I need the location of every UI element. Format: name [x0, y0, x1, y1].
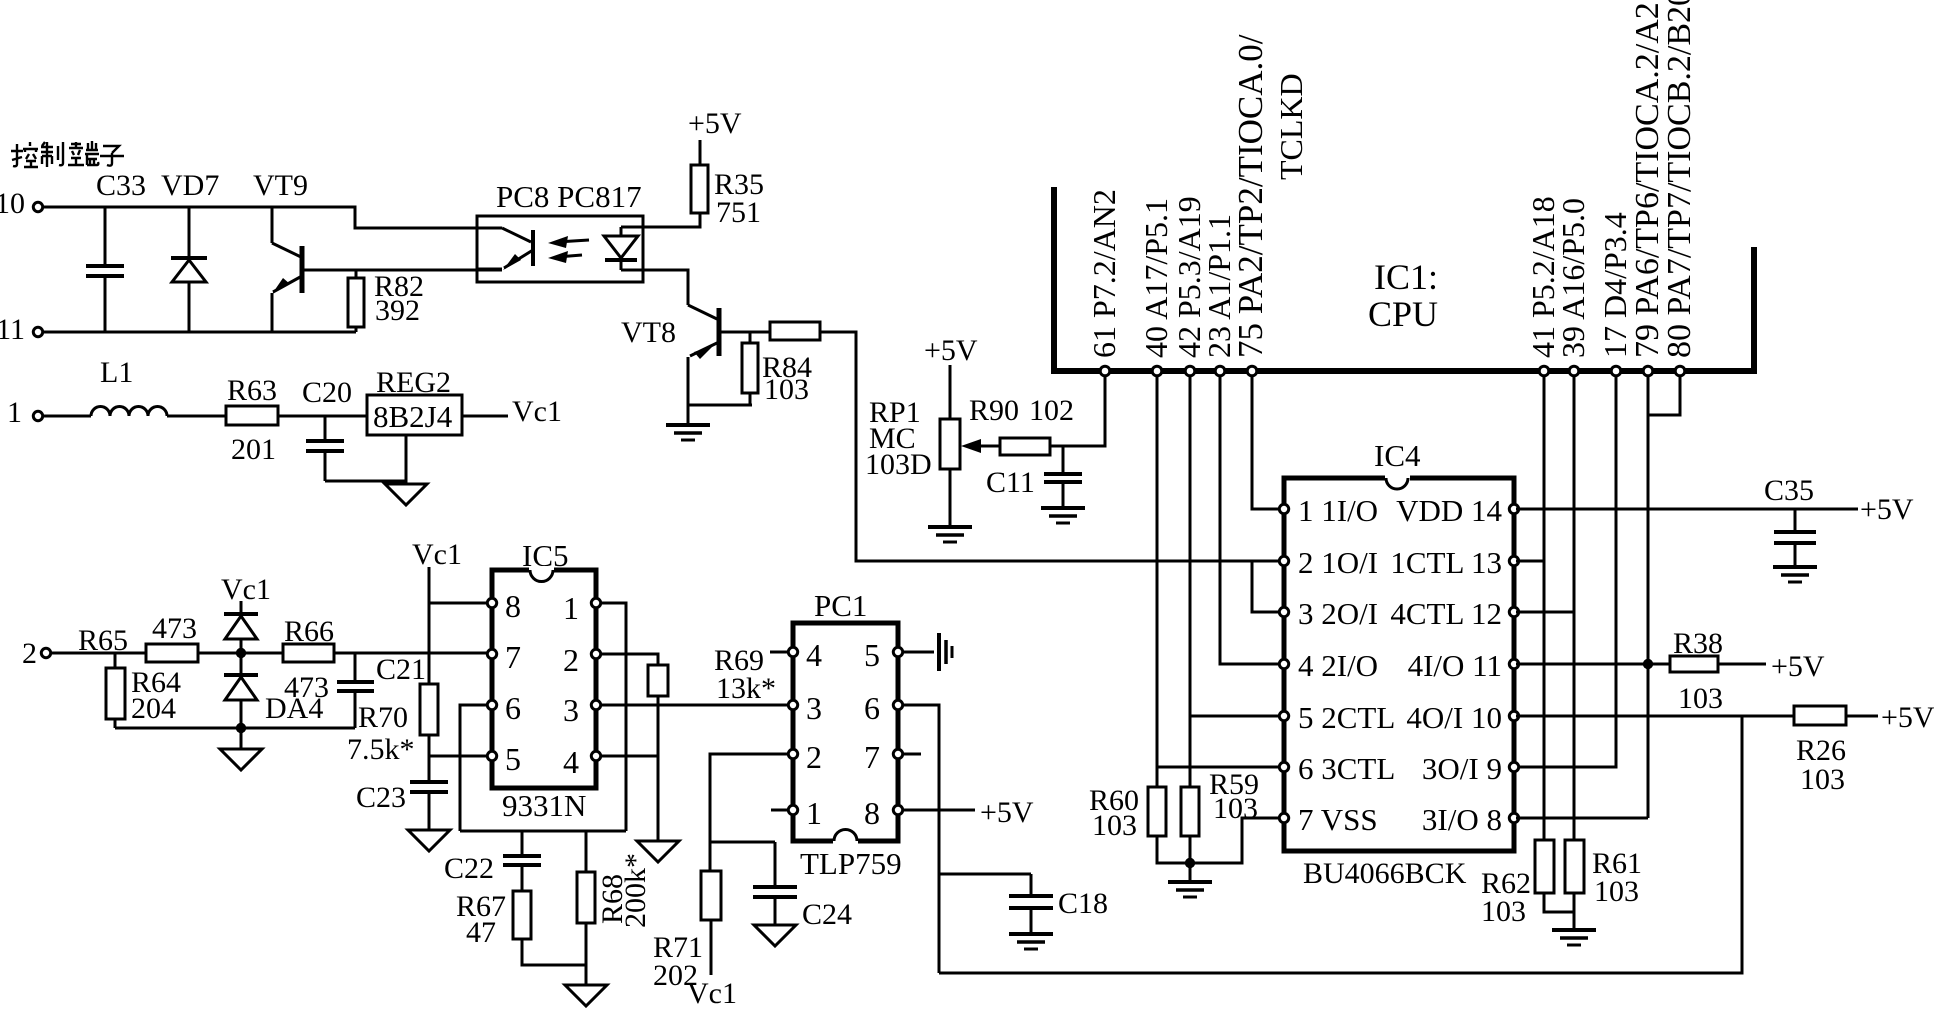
svg-text:473: 473 [152, 612, 197, 645]
svg-text:103: 103 [764, 373, 809, 406]
svg-text:Vc1: Vc1 [221, 573, 271, 606]
svg-text:5: 5 [864, 637, 880, 673]
wire CPU pin 80 jog [1648, 377, 1680, 415]
svg-text:L1: L1 [100, 356, 133, 389]
svg-text:6 3CTL: 6 3CTL [1298, 751, 1395, 786]
IC5 pin 8 wire [429, 598, 497, 607]
resistor (VT8 collector series) [770, 322, 820, 340]
svg-text:2: 2 [563, 642, 579, 678]
svg-text:1: 1 [563, 590, 579, 626]
wire R65 to R66 [198, 652, 283, 655]
IC4 pin 12 wire [1509, 607, 1574, 616]
ground (R69) [637, 841, 679, 862]
resistor R26 [1794, 706, 1878, 725]
PC1 notch (bottom) [833, 837, 858, 845]
svg-text:47: 47 [466, 916, 496, 949]
resistor R64 [106, 653, 125, 728]
svg-text:+5V: +5V [1881, 701, 1934, 734]
svg-text:103: 103 [1678, 682, 1723, 715]
svg-text:3: 3 [563, 692, 579, 728]
junction DA4 bottom [236, 723, 246, 733]
wire Vc1 column [428, 567, 431, 684]
wire branch IC4 pin2 to pin 3 [1252, 561, 1282, 612]
svg-text:103D: 103D [865, 448, 932, 481]
svg-text:C23: C23 [356, 781, 406, 814]
svg-text:C20: C20 [302, 376, 352, 409]
svg-text:TLP759: TLP759 [800, 846, 902, 881]
wire terminal 10 rail [44, 207, 503, 228]
ground (RP1) [928, 527, 972, 542]
svg-text:473: 473 [284, 671, 329, 704]
CPU IC1 outline [1051, 187, 1757, 371]
capacitor C11 [1044, 446, 1082, 508]
svg-text:1CTL 13: 1CTL 13 [1390, 545, 1502, 580]
svg-text:80 PA7/TP7/TIOCB.2/B20: 80 PA7/TP7/TIOCB.2/B20 [1661, 0, 1698, 358]
IC5 pin 4 wire [591, 751, 658, 760]
wire CPU pin 23 to IC4 pin 4 [1220, 377, 1282, 664]
wire PC8 to R35 [643, 213, 700, 227]
resistor R59 [1181, 787, 1199, 882]
wire VDD to +5V [1516, 508, 1858, 511]
junction DA4 top [236, 648, 246, 658]
svg-text:1: 1 [7, 396, 22, 429]
PC1 pin 1 stub [771, 805, 798, 814]
svg-text:VT8: VT8 [621, 316, 676, 349]
resistor R61 [1565, 840, 1584, 930]
svg-text:61 P7.2/AN2: 61 P7.2/AN2 [1086, 189, 1122, 358]
svg-text:VDD 14: VDD 14 [1396, 493, 1502, 528]
wire bottom rail (R64/DA4/C21) [115, 727, 355, 730]
svg-text:102: 102 [1029, 394, 1074, 427]
svg-text:3I/O 8: 3I/O 8 [1422, 802, 1502, 837]
resistor R38 [1670, 656, 1766, 672]
capacitor C23 [410, 782, 448, 830]
resistor R90 [1000, 438, 1050, 455]
IC4 pin 11 wire [1509, 659, 1670, 668]
regulator REG2 box [367, 395, 462, 435]
IC5 pin 2 wire [591, 649, 658, 665]
svg-text:103: 103 [1481, 895, 1526, 928]
svg-text:4CTL 12: 4CTL 12 [1390, 596, 1502, 631]
resistor R63 [226, 406, 278, 425]
diode VD7 [171, 207, 207, 332]
IC4 pin 1 wire [1279, 504, 1288, 513]
transistor VT8 [688, 305, 719, 425]
IC4 pin 10 wire [1509, 711, 1794, 720]
terminal 1 circle [33, 411, 42, 420]
IC4 pin 3 circle [1279, 607, 1288, 616]
IC4 pin 14 circle [1509, 504, 1518, 513]
PC1 pin 8 wire [893, 805, 975, 814]
svg-text:6: 6 [505, 690, 521, 726]
svg-text:1: 1 [806, 795, 822, 831]
PC1 box [793, 623, 898, 841]
capacitor C35 [1774, 509, 1816, 567]
IC4 pin 5 wire [1190, 711, 1289, 720]
resistor R68 [577, 831, 595, 985]
svg-text:2 1O/I: 2 1O/I [1298, 545, 1378, 580]
svg-text:CPU: CPU [1368, 294, 1438, 334]
IC5 notch [529, 566, 554, 574]
diode DA4 upper [224, 601, 258, 653]
IC4 pin 9 circle [1509, 762, 1518, 771]
IC4 pin 2 circle [1279, 556, 1288, 565]
svg-text:4 2I/O: 4 2I/O [1298, 648, 1378, 683]
PC8 LED [604, 227, 643, 270]
ground (VT8) [666, 425, 710, 440]
svg-text:7 VSS: 7 VSS [1298, 802, 1378, 837]
wire R63 to REG2 [278, 415, 367, 418]
terminal 11 circle [33, 327, 42, 336]
svg-text:TCLKD: TCLKD [1273, 73, 1309, 180]
resistor R62 [1535, 840, 1574, 912]
transistor VT9 [272, 207, 302, 332]
svg-text:+5V: +5V [688, 107, 742, 140]
wire R90 to CPU pin 61 [1050, 377, 1105, 446]
svg-text:103: 103 [1594, 875, 1639, 908]
svg-text:4O/I 10: 4O/I 10 [1406, 700, 1502, 735]
ground (R68) [565, 985, 607, 1006]
resistor R70 [420, 684, 438, 782]
wire REG2 ground lead [405, 435, 408, 484]
svg-text:75 PA2/TP2/TIOCA.0/: 75 PA2/TP2/TIOCA.0/ [1231, 34, 1270, 358]
IC5 pin 3 wire [591, 700, 788, 709]
svg-text:C21: C21 [376, 653, 426, 686]
svg-text:4: 4 [563, 744, 579, 780]
IC4 pin 4 circle [1279, 659, 1288, 668]
svg-text:VD7: VD7 [161, 169, 219, 202]
capacitor C20 [306, 416, 344, 481]
ground (R61/R62) [1552, 930, 1596, 945]
capacitor C24 [753, 842, 797, 925]
IC5 pin 6 wire [460, 700, 497, 831]
wire R66 to IC5 pin 7 [334, 652, 489, 655]
ground (C24) [754, 925, 796, 946]
wire terminal 1 [44, 415, 92, 418]
wire CPU pin 17 to IC4 pin 9 [1516, 377, 1616, 767]
PC8 light arrows [548, 236, 589, 263]
wire C20 to REG2 ground lead [325, 480, 406, 483]
ground (DA4) [220, 749, 262, 770]
svg-text:R70: R70 [358, 701, 408, 734]
IC4 pin 13 wire [1509, 556, 1544, 565]
svg-text:BU4066BCK: BU4066BCK [1303, 857, 1467, 890]
svg-text:751: 751 [716, 196, 761, 229]
ground (C35) [1773, 567, 1817, 582]
wire terminal 2 [52, 652, 147, 655]
svg-text:5 2CTL: 5 2CTL [1298, 700, 1395, 735]
svg-text:Vc1: Vc1 [687, 977, 737, 1009]
ground (REG2) [385, 484, 427, 505]
wire IC5 bottom rail [460, 830, 626, 833]
svg-text:Vc1: Vc1 [412, 538, 462, 571]
IC4 pin 6 wire [1157, 762, 1289, 771]
IC5 pin 1 wire [591, 598, 626, 831]
svg-text:4: 4 [806, 637, 822, 673]
svg-text:3: 3 [806, 690, 822, 726]
wire R71 branch to C24 [710, 841, 775, 844]
svg-text:+5V: +5V [1860, 493, 1914, 526]
PC1 pin 7 stub [893, 749, 921, 758]
wire VT9 base to PC8 [302, 269, 502, 272]
svg-text:201: 201 [231, 433, 276, 466]
svg-text:3 2O/I: 3 2O/I [1298, 596, 1378, 631]
svg-text:40 A17/P5.1: 40 A17/P5.1 [1138, 198, 1174, 358]
svg-text:17 D4/P3.4: 17 D4/P3.4 [1597, 212, 1633, 358]
svg-text:103: 103 [1213, 792, 1258, 825]
IC4 pin 7 wire [1190, 813, 1289, 863]
svg-text:103: 103 [1800, 763, 1845, 796]
PC1 pin 3 circle [788, 700, 797, 709]
svg-text:+5V: +5V [924, 334, 978, 367]
svg-text:39 A16/P5.0: 39 A16/P5.0 [1555, 198, 1591, 358]
svg-text:IC4: IC4 [1374, 438, 1421, 473]
svg-text:IC1:: IC1: [1374, 257, 1438, 297]
IC5 pin 5 wire [429, 751, 497, 760]
resistor R82 [348, 270, 364, 332]
svg-text:C35: C35 [1764, 474, 1814, 507]
svg-text:R90: R90 [969, 394, 1019, 427]
svg-text:+5V: +5V [980, 796, 1034, 829]
ground (C11) [1041, 508, 1085, 523]
wire PC8 to VT8 base [643, 270, 688, 305]
wire CPU pin 41 to R62 column [1543, 377, 1546, 840]
diode DA4 lower [224, 653, 258, 728]
ground (C23) [408, 830, 450, 851]
svg-text:7: 7 [505, 639, 521, 675]
terminal 2 circle [41, 648, 50, 657]
wire CPU pin 79/80 column [1647, 377, 1650, 818]
resistor R67 [513, 891, 586, 965]
PC1 pin 4 stub [770, 647, 798, 656]
resistor R71 [701, 871, 721, 975]
junction pin11/R38 [1643, 659, 1653, 669]
wire CPU pin 39 to R61 column [1573, 377, 1576, 840]
svg-text:C11: C11 [986, 466, 1035, 499]
resistor R69 [648, 665, 668, 841]
junction R59/R60/VSS [1185, 858, 1195, 868]
svg-text:+5V: +5V [1771, 650, 1825, 683]
ground (C18) [1009, 934, 1053, 949]
svg-text:C22: C22 [444, 852, 494, 885]
wire pin10 down to bottom rail [939, 716, 1742, 973]
svg-text:3O/I 9: 3O/I 9 [1422, 751, 1502, 786]
wire CPU pin 40 to R60 column [1156, 377, 1159, 787]
svg-text:7.5k*: 7.5k* [347, 733, 415, 766]
svg-text:7: 7 [864, 739, 880, 775]
resistor R84 [742, 332, 758, 405]
PC1 pin 5 wire [893, 647, 934, 656]
svg-text:204: 204 [131, 692, 176, 725]
resistor R66 [283, 644, 334, 662]
IC4 notch [1385, 474, 1410, 482]
svg-text:PC8 PC817: PC8 PC817 [496, 179, 642, 214]
wire +5V to RP1 [949, 365, 952, 419]
IC4 box [1284, 478, 1514, 851]
PC1 pin 6 wire [893, 700, 939, 973]
svg-text:2: 2 [22, 637, 37, 670]
svg-text:103: 103 [1092, 809, 1137, 842]
ground (PC1 pin5, rotated) [939, 633, 952, 671]
capacitor C18 [1009, 874, 1053, 934]
PC1 pin 2 wire [710, 749, 798, 871]
IC5 box [492, 570, 596, 788]
label 控制端子 (control terminals), hand-drawn strokes [11, 141, 124, 167]
capacitor C21 [337, 653, 374, 728]
wire REG2 out [462, 415, 508, 418]
svg-text:VT9: VT9 [253, 169, 308, 202]
wire CPU pin 75 to IC4 pin 1 [1252, 377, 1282, 509]
svg-text:C33: C33 [96, 169, 146, 202]
wire C18 branch [939, 873, 1031, 876]
svg-text:1 1I/O: 1 1I/O [1298, 493, 1378, 528]
wire VT8 collector [719, 331, 770, 334]
svg-text:11: 11 [0, 313, 25, 346]
wire DA4 to ground [240, 728, 243, 749]
IC5 pin 7 circle [487, 649, 496, 658]
ground (R59/R60) [1168, 882, 1212, 897]
svg-text:8B2J4: 8B2J4 [373, 399, 453, 434]
wire VT8 emitter to R84 bottom [688, 404, 752, 407]
optocoupler PC8 box [477, 216, 643, 282]
svg-text:2: 2 [806, 739, 822, 775]
svg-text:5: 5 [505, 741, 521, 777]
capacitor C33 [86, 207, 124, 332]
resistor R65 [146, 644, 198, 662]
svg-text:6: 6 [864, 690, 880, 726]
terminal 10 circle [33, 202, 42, 211]
wire terminal 11 rail [44, 331, 357, 334]
PC8 phototransistor [477, 228, 533, 270]
svg-text:PC1: PC1 [814, 588, 867, 623]
svg-text:9331N: 9331N [502, 788, 586, 823]
svg-text:Vc1: Vc1 [512, 395, 562, 428]
inductor L1 [91, 407, 167, 417]
svg-text:13k*: 13k* [716, 672, 776, 705]
wire L1 to R63 [167, 415, 226, 418]
svg-text:200k*: 200k* [619, 853, 652, 928]
svg-text:8: 8 [864, 795, 880, 831]
svg-text:4I/O 11: 4I/O 11 [1408, 648, 1502, 683]
svg-text:8: 8 [505, 588, 521, 624]
wire CPU pin 42 to R59 column [1189, 377, 1192, 787]
resistor R60 [1148, 787, 1190, 863]
potentiometer RP1 [940, 419, 1000, 527]
wire to IC4 pin 2 [820, 332, 1282, 561]
IC4 pin 8 wire [1509, 813, 1648, 822]
svg-text:C18: C18 [1058, 887, 1108, 920]
svg-text:10: 10 [0, 187, 25, 220]
svg-text:R65: R65 [78, 624, 128, 657]
svg-text:392: 392 [375, 294, 420, 327]
capacitor C22 [503, 831, 541, 891]
svg-text:C24: C24 [802, 898, 852, 931]
resistor R35 [691, 140, 708, 213]
svg-text:R63: R63 [227, 374, 277, 407]
